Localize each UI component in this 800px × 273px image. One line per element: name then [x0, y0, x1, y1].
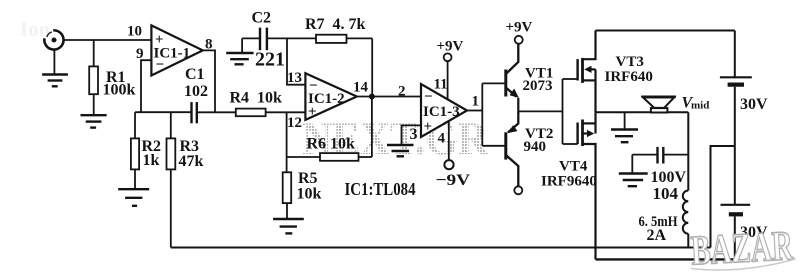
wire R6 right up to output node — [371, 97, 373, 158]
wire top rail +30V — [596, 30, 735, 32]
wire base bus VT1/VT2 — [481, 83, 483, 145]
wire pin8 output — [203, 50, 215, 112]
svg-text:IC1:TL084: IC1:TL084 — [345, 179, 416, 199]
wire pin3 to ground — [402, 125, 422, 144]
watermark "BAZAR" bottom-right — [689, 223, 796, 273]
svg-text:+: + — [308, 104, 317, 120]
wire IC1-2 output to IC1-3 pin2 — [357, 96, 421, 98]
svg-text:11: 11 — [434, 77, 448, 93]
wire node R7 right down to output — [371, 38, 373, 96]
op-amp U1A IC1-1 — [151, 25, 202, 75]
svg-text:2: 2 — [398, 84, 406, 100]
svg-text:C1: C1 — [185, 66, 205, 83]
wire feedback rail (node B) — [171, 247, 711, 249]
resistor R7 — [287, 35, 372, 43]
wire R3 bottom to feedback rail — [170, 169, 172, 247]
svg-text:C2: C2 — [252, 10, 272, 27]
svg-text:−: − — [424, 89, 433, 105]
wire node A (pin9/R2/R3/C1) — [135, 111, 192, 113]
op-amp U1B IC1-2 — [305, 73, 356, 120]
wire emitters to gate bus — [518, 110, 562, 112]
wire battery B2 to bottom rail — [734, 216, 736, 259]
wire C1 to pin8 node — [197, 111, 236, 113]
speaker BL — [641, 97, 676, 113]
svg-text:8: 8 — [205, 37, 213, 53]
svg-text:R7 4. 7k: R7 4. 7k — [305, 16, 366, 33]
svg-text:+9V: +9V — [437, 39, 464, 55]
svg-text:1k: 1k — [143, 152, 160, 169]
wire battery midpoint tap — [711, 146, 735, 248]
svg-text:30V: 30V — [740, 96, 768, 113]
svg-text:102: 102 — [184, 83, 208, 100]
wire input to pin10 — [63, 39, 151, 41]
wire pin12 node down to R5/R6 — [286, 112, 288, 172]
svg-text:4: 4 — [438, 131, 446, 147]
op-amp U1C IC1-3 — [421, 84, 467, 137]
svg-text:IC1-3: IC1-3 — [423, 104, 460, 120]
svg-text:mid: mid — [691, 100, 709, 112]
ground under R1 — [81, 115, 107, 127]
wire gate bus VT3/VT4 — [562, 79, 564, 144]
MOSFET Q4 VT4 — [563, 112, 596, 259]
svg-text:221: 221 — [255, 49, 285, 71]
input jack J1 — [44, 30, 63, 74]
resistor R5 — [283, 172, 292, 218]
svg-text:−9V: −9V — [436, 172, 471, 189]
MOSFET Q3 VT3 — [563, 31, 596, 113]
svg-text:13: 13 — [287, 70, 302, 86]
ground under C3 — [619, 174, 648, 187]
svg-text:12: 12 — [287, 115, 302, 131]
svg-text:IRF9640: IRF9640 — [541, 174, 597, 190]
svg-text:−: − — [156, 57, 165, 73]
transistor Q1 VT1 — [482, 45, 519, 112]
svg-text:VT4: VT4 — [559, 159, 588, 175]
resistor R3 — [167, 112, 176, 169]
ground on output line — [611, 112, 638, 142]
ground under pin3 — [387, 145, 414, 156]
svg-text:Ion: Ion — [20, 17, 51, 41]
capacitor C2 — [242, 28, 287, 52]
resistor R1 — [89, 40, 98, 114]
svg-text:100k: 100k — [103, 82, 136, 99]
ground under C2 — [226, 53, 253, 64]
-9V style terminal below VT2 — [514, 186, 522, 194]
svg-text:2A: 2A — [647, 227, 667, 244]
svg-text:9: 9 — [136, 46, 144, 62]
svg-text:R5: R5 — [298, 170, 318, 187]
svg-text:R4 10k: R4 10k — [230, 90, 283, 107]
inductor L1 6.5mH — [683, 112, 689, 247]
resistor R2 — [131, 112, 139, 188]
svg-text:BAZAR: BAZAR — [690, 223, 795, 273]
ground under R2 — [118, 189, 149, 206]
ground under R5 — [273, 219, 304, 233]
svg-text:IRF640: IRF640 — [605, 69, 653, 85]
+9V terminal above VT1 — [515, 36, 523, 44]
resistor R4 — [236, 109, 306, 117]
resistor R6 — [287, 153, 372, 161]
svg-text:47k: 47k — [179, 153, 204, 170]
capacitor C1 — [192, 102, 197, 123]
ground under jack — [42, 75, 68, 87]
svg-text:2073: 2073 — [523, 78, 553, 94]
wire output node Vmid — [596, 111, 689, 113]
svg-text:1: 1 — [472, 94, 480, 110]
svg-text:R6 10k: R6 10k — [307, 136, 356, 153]
svg-text:3: 3 — [410, 126, 418, 143]
svg-text:+: + — [424, 119, 433, 135]
svg-text:14: 14 — [353, 80, 369, 96]
wire bottom rail — [596, 258, 736, 260]
wire node C2/R7 left down to pin13 — [287, 38, 305, 84]
wire pin9 — [141, 60, 151, 112]
transistor Q2 VT2 — [482, 111, 518, 186]
wire right rail — [734, 31, 736, 78]
battery B2 30V — [721, 205, 751, 215]
svg-text:104: 104 — [653, 184, 679, 203]
capacitor C3 104/100V — [632, 147, 688, 173]
svg-text:940: 940 — [524, 139, 547, 155]
svg-text:10k: 10k — [297, 186, 322, 203]
svg-text:10: 10 — [127, 24, 142, 40]
battery B1 30V — [720, 77, 752, 84]
wire IC1-3 output pin1 — [467, 110, 482, 112]
wire between batteries — [734, 87, 736, 205]
svg-text:VT3: VT3 — [616, 54, 644, 70]
+9V terminal of IC1-3 pin11 — [444, 53, 452, 99]
-9V terminal of IC1-3 pin4 — [444, 121, 453, 169]
junction dot output IC1-2 — [369, 94, 375, 100]
svg-text:+9V: +9V — [506, 20, 533, 36]
